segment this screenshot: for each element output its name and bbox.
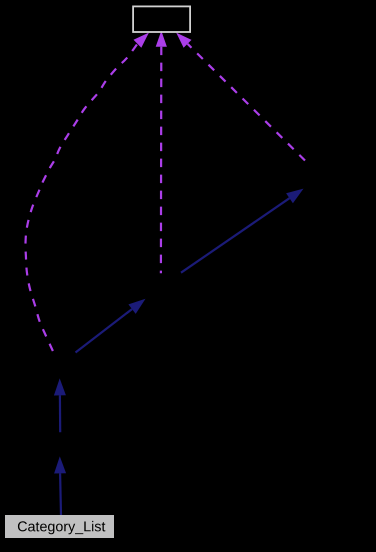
node: top class box (empty, gray border): [133, 6, 190, 32]
edge: dashed vertical arrow (center) from hidden node 3 to top node: [160, 47, 163, 273]
edge: solid diagonal arrow from hidden node 2 to hidden node 3: [76, 309, 133, 352]
edge: solid arrow from Category_List up to hidden node 1: [59, 473, 62, 515]
edge: dashed curved arrow (left) from hidden node 2 to top node: [25, 44, 137, 351]
node Category_List: [5, 515, 114, 538]
edge: solid arrow from hidden node 1 up to hidden node 2: [59, 395, 61, 432]
edge: dashed diagonal arrow (right) from hidden node 4 to top node: [188, 44, 305, 161]
edge: solid diagonal arrow from hidden node 3 to hidden node 4: [181, 198, 290, 273]
